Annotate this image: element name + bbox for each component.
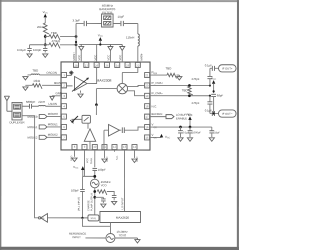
capacitor loop 2	[101, 197, 106, 202]
pin15 VCC wire	[150, 133, 162, 140]
terminal IF OUT+	[219, 65, 237, 72]
node L junction	[93, 190, 96, 193]
svg-text:17: 17	[145, 115, 149, 119]
ground pin11	[102, 150, 107, 163]
wire VCO down	[94, 188, 96, 215]
svg-text:18: 18	[145, 104, 149, 108]
capacitor 0.1µF out-	[205, 104, 219, 116]
wire R20k to node A	[44, 34, 46, 45]
pin7 label MODE2	[48, 133, 58, 137]
IC top pins 28-22	[74, 62, 141, 67]
capacitor 33pF decouple	[209, 127, 220, 136]
svg-text:VCC: VCC	[86, 158, 89, 163]
svg-text:470kΩ: 470kΩ	[52, 39, 61, 43]
svg-text:MODE2: MODE2	[48, 133, 58, 137]
resistor 470kΩ	[49, 39, 61, 48]
svg-text:IF OUT−: IF OUT−	[222, 112, 233, 116]
wire mixer to pin20	[127, 86, 144, 87]
ground pin14	[132, 150, 137, 163]
ground pin8	[72, 150, 77, 162]
pin19 IF_CMA- wire	[150, 91, 211, 97]
svg-text:20: 20	[145, 84, 149, 88]
oscillator TCXO circle	[106, 233, 115, 242]
inductor 22nH LNA	[32, 100, 61, 106]
pin12 NC stub	[113, 150, 115, 152]
wire filter to MXIN- corner	[124, 23, 138, 25]
wire TBD left	[45, 35, 49, 37]
svg-text:(PLL INPUT): (PLL INPUT)	[78, 197, 81, 211]
node K junction	[93, 175, 96, 178]
svg-text:MODE1: MODE1	[27, 125, 37, 129]
svg-text:6800pF: 6800pF	[26, 100, 36, 104]
pin10 TANK column	[94, 150, 96, 167]
capacitor 1000pF decouple	[188, 127, 202, 136]
svg-text:INPUT: INPUT	[72, 235, 81, 239]
capacitor 100pF bypass	[33, 45, 47, 52]
ground loop 2	[101, 202, 106, 207]
net label PLL INPUT rotated	[78, 197, 81, 211]
inductor TBD osc row1	[28, 69, 62, 75]
pin label VCC3 rotated	[118, 55, 122, 61]
ground 1000pF	[187, 136, 192, 141]
IC right pins 21-15	[145, 73, 150, 140]
svg-text:VCC: VCC	[43, 10, 49, 15]
power VCC supply right	[187, 113, 193, 120]
svg-text:IF OUT+: IF OUT+	[222, 67, 233, 71]
pin label MXIN+ rotated	[72, 52, 76, 61]
terminal LO BUFFER ENABLE	[166, 113, 192, 121]
node M junction	[93, 196, 96, 199]
svg-text:TBD: TBD	[182, 88, 188, 92]
power VCC supply IF pullup	[211, 76, 217, 83]
svg-text:BUFFEN: BUFFEN	[152, 112, 163, 116]
svg-text:14: 14	[133, 145, 137, 149]
capacitor 270pF minus	[192, 96, 213, 105]
svg-text:GND: GND	[106, 156, 109, 162]
wire TBD right	[60, 35, 76, 37]
pin label rotated TANK10	[90, 157, 93, 164]
svg-text:27: 27	[85, 64, 89, 68]
svg-text:LNAIN: LNAIN	[49, 102, 58, 106]
pin label MXIN- rotated	[139, 53, 143, 61]
svg-text:V: V	[151, 133, 153, 137]
svg-text:N.C.: N.C.	[116, 155, 119, 160]
capacitor 270pF plus	[192, 76, 213, 85]
ground TCXO	[135, 238, 140, 243]
svg-text:270pF: 270pF	[192, 77, 200, 81]
VCC arrow into pin 24	[120, 45, 125, 63]
node H junction	[179, 126, 182, 129]
svg-text:28: 28	[74, 64, 78, 68]
svg-text:CC: CC	[154, 138, 158, 140]
svg-text:MODE2: MODE2	[27, 136, 37, 140]
svg-text:23: 23	[126, 64, 130, 68]
svg-text:7: 7	[63, 136, 65, 140]
svg-text:TCXO: TCXO	[118, 233, 127, 237]
wire TCXO to box	[82, 218, 110, 234]
internal varactor cross	[69, 71, 73, 75]
pin9 VCC column	[83, 150, 85, 176]
node rail junction	[99, 43, 101, 45]
wire mixer top to pin22	[122, 68, 138, 84]
svg-text:DUPLEXER: DUPLEXER	[9, 120, 24, 124]
svg-text:0.01µF: 0.01µF	[17, 48, 26, 52]
svg-text:XTAL: XTAL	[91, 217, 97, 220]
svg-text:V: V	[151, 123, 153, 127]
pin13 LO column	[123, 150, 125, 212]
svg-text:N.C.: N.C.	[152, 104, 158, 108]
svg-text:MODE1: MODE1	[48, 122, 58, 126]
pin21 RSSI wire	[150, 70, 167, 75]
wire PD to divider	[87, 123, 89, 129]
svg-text:100pF: 100pF	[71, 188, 79, 192]
svg-text:LO INPUT: LO INPUT	[120, 197, 124, 209]
terminal MODE2	[27, 135, 61, 139]
capacitor 3.3pF coupling	[73, 18, 87, 26]
capacitor 6800pF LNA	[22, 100, 36, 109]
oscillator VCO circle	[90, 179, 99, 188]
ground VGA internal	[78, 90, 83, 97]
terminal MODE0	[28, 115, 62, 119]
svg-text:15: 15	[145, 136, 149, 140]
node A junction	[44, 35, 47, 38]
svg-text:10: 10	[93, 145, 97, 149]
node D-	[188, 94, 191, 97]
svg-text:9: 9	[84, 145, 86, 149]
pin2 label BIAS	[54, 81, 61, 85]
wire loop filter corner	[107, 191, 114, 195]
duplexer FL2 box	[12, 102, 22, 120]
pin18 label N.C.	[152, 104, 158, 108]
svg-text:0.1µF: 0.1µF	[205, 109, 213, 113]
IC left pins 1-7	[61, 72, 66, 139]
svg-text:MXIN+: MXIN+	[72, 52, 76, 61]
IC U2 MAX2620 box	[100, 211, 141, 222]
net label CHARGE PUMP OUTPUT rotated	[87, 192, 93, 211]
svg-text:22: 22	[136, 64, 140, 68]
svg-text:VCC: VCC	[98, 33, 104, 38]
node G junction	[213, 112, 215, 114]
svg-text:MAX2308: MAX2308	[97, 79, 112, 83]
wire node M stub	[95, 196, 104, 198]
pin3 label GND	[56, 91, 62, 95]
pin label VCC1 rotated	[77, 55, 81, 61]
wire caps row	[30, 44, 46, 46]
amplifier PA triangle	[38, 214, 47, 223]
border frame	[0, 0, 239, 250]
capacitor 0.1µF decouple	[178, 127, 190, 136]
ground pin3 small	[50, 96, 54, 100]
svg-text:11: 11	[103, 145, 106, 149]
svg-text:ENABLE: ENABLE	[176, 116, 187, 120]
svg-text:1: 1	[63, 73, 65, 77]
filter FL1 465MHz bandpass box	[102, 14, 114, 27]
label DUPLEXER	[9, 120, 24, 124]
pin4 label LNAIN	[49, 102, 58, 106]
wire VCC pin 26 stub	[96, 44, 98, 61]
svg-text:VCC: VCC	[211, 76, 217, 81]
svg-text:PA: PA	[42, 217, 45, 220]
wire pin1 internal	[67, 74, 72, 76]
pin6 label MODE1	[48, 122, 58, 126]
wire mixer to pin19	[127, 91, 144, 96]
VCC rail	[79, 43, 122, 45]
wire duplexer TX column	[22, 116, 39, 218]
capacitor 10pF after filter	[113, 15, 124, 26]
pin3 GND wire	[52, 95, 61, 97]
ground loop 1	[112, 200, 117, 205]
svg-text:0.1µF: 0.1µF	[205, 63, 213, 67]
wire VCC to pin16 rail	[189, 120, 191, 127]
svg-text:MAX2620: MAX2620	[116, 216, 130, 220]
wire pin2 internal	[67, 85, 73, 87]
svg-text:PUMP OUTPUT: PUMP OUTPUT	[91, 192, 94, 211]
svg-text:VCC: VCC	[106, 55, 110, 61]
pin label rotated GND14	[136, 156, 139, 162]
terminal REFERENCE INPUT	[69, 232, 106, 240]
wire MXIN+ column to pin 28	[75, 23, 77, 62]
svg-text:VCC: VCC	[73, 165, 79, 170]
svg-text:GND: GND	[70, 155, 73, 161]
svg-text:TBD: TBD	[32, 69, 38, 73]
wire R470k right	[60, 44, 76, 46]
resistor TBD top	[49, 31, 60, 40]
svg-text:TBD: TBD	[166, 66, 172, 70]
wire R470k left	[45, 44, 49, 46]
svg-text:VCC: VCC	[93, 55, 97, 61]
svg-text:TANK: TANK	[90, 157, 93, 164]
capacitor internal dc block	[119, 127, 144, 133]
svg-text:MXIN-: MXIN-	[139, 53, 143, 61]
IC U1 MAX2308 body	[61, 62, 150, 150]
VCC arrow into pin 27	[79, 44, 84, 62]
ground row1	[23, 75, 28, 80]
amplifier divider internal	[84, 129, 95, 149]
pin5 label MODE0	[48, 112, 58, 116]
pin label rotated VCC9	[86, 158, 89, 163]
svg-text:IF_CMA−: IF_CMA−	[152, 91, 164, 95]
svg-text:68pF: 68pF	[217, 93, 224, 97]
wire TCXO to ground	[115, 237, 137, 239]
wire VCC to R 20k	[44, 18, 46, 23]
svg-text:4: 4	[63, 104, 65, 108]
svg-text:19: 19	[145, 94, 149, 98]
svg-text:25: 25	[105, 64, 109, 68]
pin1 label OSCON	[46, 71, 57, 75]
pin label rotated GND11	[106, 156, 109, 162]
inductor 115nH	[126, 24, 139, 47]
svg-text:21: 21	[145, 73, 149, 77]
amplifier LO buffer internal	[104, 124, 120, 149]
svg-text:6: 6	[63, 125, 65, 129]
svg-text:14kΩ: 14kΩ	[33, 79, 41, 83]
svg-text:IF_CMA+: IF_CMA+	[152, 81, 164, 85]
VCC arrow into pin 25	[108, 44, 113, 62]
svg-text:20kΩ: 20kΩ	[37, 25, 45, 29]
IC U3 XTAL small box	[88, 215, 100, 221]
wire VCC bottom to pin9	[83, 170, 95, 176]
svg-text:115nH: 115nH	[126, 36, 134, 40]
svg-text:GND: GND	[136, 156, 139, 162]
IC bottom pins 8-14	[72, 145, 137, 150]
wire VGA out to pin26	[87, 68, 97, 84]
svg-text:VCO: VCO	[101, 183, 107, 187]
pin17 BUFFEN wire	[150, 112, 166, 117]
antenna ANT1	[4, 96, 9, 111]
svg-text:VCC: VCC	[77, 55, 81, 61]
svg-text:100pF: 100pF	[98, 168, 106, 172]
svg-text:100pF: 100pF	[33, 48, 41, 52]
svg-text:MODE0: MODE0	[48, 112, 58, 116]
svg-text:12: 12	[113, 145, 117, 149]
resistor 20kΩ	[37, 23, 49, 34]
svg-text:GND: GND	[56, 91, 62, 95]
svg-text:1000pF: 1000pF	[192, 130, 201, 134]
pin label VCC2 rotated	[93, 55, 110, 61]
svg-text:VCC: VCC	[118, 55, 122, 61]
terminal MODE1	[27, 125, 61, 129]
svg-text:OSCON: OSCON	[46, 71, 57, 75]
svg-text:33pF: 33pF	[214, 130, 220, 134]
svg-text:24: 24	[116, 64, 120, 68]
wire mixer left input	[95, 89, 117, 115]
ground RSSI	[177, 75, 182, 80]
wire VCC col to node F	[213, 84, 215, 93]
svg-text:10pF: 10pF	[118, 15, 125, 19]
svg-text:13: 13	[123, 145, 127, 149]
resistor loop filter	[97, 190, 107, 195]
node C junction MXIN column	[75, 35, 78, 46]
node F junction	[213, 90, 215, 92]
label 19.2MHz TCXO	[116, 230, 128, 238]
ground 0.1uF	[178, 136, 183, 141]
wire rssi to gnd	[177, 74, 180, 76]
svg-text:SSI: SSI	[154, 73, 158, 75]
resistor TBD differential	[182, 86, 193, 95]
amplifier VGA internal	[72, 76, 89, 91]
power VCC supply bottom	[73, 165, 84, 170]
capacitor loop 1	[112, 196, 117, 200]
wire PA input	[47, 217, 88, 219]
pin label rotated LO input	[120, 197, 124, 209]
terminal IF OUT-	[219, 110, 237, 117]
svg-text:5: 5	[63, 115, 65, 119]
ground for 100pF cap	[43, 51, 48, 58]
resistor TBD rssi	[166, 66, 177, 78]
svg-text:CC: CC	[154, 127, 158, 129]
svg-text:26: 26	[95, 64, 99, 68]
wire antenna to duplexer	[7, 110, 12, 112]
svg-text:VCC: VCC	[165, 135, 171, 140]
svg-text:22nH: 22nH	[38, 100, 45, 104]
capacitor 100pF tank	[92, 168, 106, 179]
capacitor 0.1µF out+	[205, 63, 219, 76]
resistor 14kΩ bias row2	[25, 79, 61, 89]
svg-text:270pF: 270pF	[192, 101, 200, 105]
label 465MHz BANDPASS FILTER	[99, 4, 115, 15]
pin label rotated GND8	[70, 155, 73, 161]
svg-text:BIAS: BIAS	[54, 81, 61, 85]
wire MXIN- to pin 22	[137, 46, 139, 62]
wire cap to filter	[87, 22, 102, 24]
pin20 IF_CMA+ wire	[150, 81, 211, 87]
node J junction	[93, 175, 96, 178]
ground 33pF	[209, 136, 214, 141]
power VCC arrow pin15	[160, 134, 171, 140]
node I junction	[189, 126, 192, 129]
capacitor 100pF PA coupling	[71, 176, 85, 218]
svg-text:3: 3	[63, 94, 65, 98]
svg-text:TBD: TBD	[51, 31, 57, 35]
label VCO	[101, 180, 112, 187]
svg-text:3.3pF: 3.3pF	[73, 18, 81, 22]
power VCC supply top-left	[43, 10, 49, 17]
node B junction	[44, 43, 47, 46]
internal varactor arrow	[70, 116, 82, 123]
wire VCC to rail	[99, 41, 101, 45]
svg-text:8: 8	[74, 145, 76, 149]
internal PD box	[82, 115, 90, 123]
power VCC supply top-center	[98, 33, 104, 40]
pin16 VCC wire	[150, 123, 212, 130]
svg-text:FILTER: FILTER	[102, 11, 113, 15]
svg-text:16: 16	[145, 125, 149, 129]
mixer internal circle	[117, 83, 127, 93]
ground for 0.01µF cap	[27, 51, 32, 58]
capacitor 0.01µF bypass	[17, 45, 32, 52]
capacitor 68pF	[211, 93, 223, 113]
svg-text:2: 2	[63, 84, 65, 88]
pin label rotated NC12	[116, 155, 119, 160]
node D+	[188, 84, 191, 87]
ground row2	[23, 85, 28, 90]
